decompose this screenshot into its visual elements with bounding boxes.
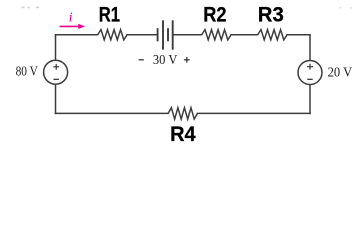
20 V source plus sign	[307, 64, 313, 70]
wire left vertical upper	[55, 35, 57, 60]
wire R3 to top-right corner	[287, 34, 310, 36]
svg-text:80 V: 80 V	[16, 64, 39, 79]
svg-text:20 V: 20 V	[328, 65, 353, 80]
battery 30 V plate 3 (short)	[167, 28, 169, 41]
svg-text:R4: R4	[170, 121, 196, 146]
wire battery to R2	[173, 34, 202, 36]
svg-text:R3: R3	[258, 2, 284, 27]
faint stray mark 5	[350, 7, 352, 9]
svg-text:R1: R1	[99, 2, 120, 27]
wire right vertical upper	[309, 35, 311, 60]
resistor R3	[258, 30, 287, 40]
wire bottom-right segment	[198, 112, 311, 114]
resistor R4	[168, 108, 197, 119]
current arrow i (head)	[78, 24, 85, 29]
battery polarity plus sign	[184, 57, 190, 63]
voltage source 20 V (circle)	[298, 61, 322, 85]
resistor R2	[202, 30, 231, 40]
wire R1 to battery	[127, 34, 158, 36]
wire top-left segment (node a to R1)	[56, 34, 98, 36]
80 V source minus sign	[54, 78, 59, 80]
battery 30 V plate 4 (long, positive side)	[172, 20, 174, 49]
faint stray mark 1	[22, 7, 25, 9]
wire right vertical lower	[309, 85, 311, 113]
wire bottom-left segment	[56, 112, 169, 114]
battery 30 V plate 2 (long)	[162, 20, 164, 49]
svg-text:i: i	[69, 10, 73, 25]
80 V source plus sign	[53, 64, 59, 70]
svg-text:30 V: 30 V	[153, 52, 178, 67]
faint stray mark 4	[339, 7, 341, 9]
resistor R1	[98, 30, 127, 40]
wire R2 to R3	[231, 34, 258, 36]
svg-text:R2: R2	[203, 2, 226, 27]
wire left vertical lower	[55, 85, 57, 114]
20 V source minus sign	[307, 78, 312, 80]
battery polarity minus sign	[139, 59, 144, 61]
faint stray mark 3	[36, 7, 39, 9]
voltage source 80 V (circle)	[44, 60, 68, 84]
current arrow i (shaft)	[60, 25, 80, 27]
faint stray mark 2	[28, 7, 30, 9]
battery 30 V plate 1 (short, negative side)	[157, 28, 159, 41]
